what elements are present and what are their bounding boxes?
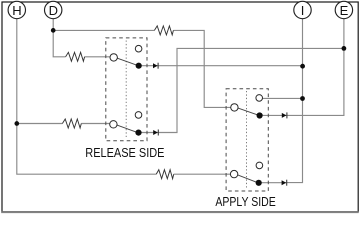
svg-text:RELEASE SIDE: RELEASE SIDE <box>85 146 164 160</box>
svg-text:D: D <box>49 3 58 18</box>
svg-text:I: I <box>301 3 305 18</box>
svg-text:E: E <box>340 3 349 18</box>
svg-text:H: H <box>12 3 21 18</box>
svg-text:APPLY SIDE: APPLY SIDE <box>215 195 275 209</box>
